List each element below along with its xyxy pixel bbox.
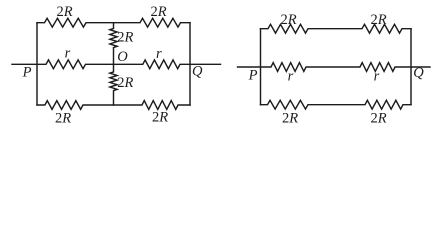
svg-text:Q: Q — [413, 65, 424, 81]
svg-text:r: r — [156, 46, 162, 62]
svg-text:2R: 2R — [117, 75, 133, 91]
svg-text:r: r — [65, 46, 71, 62]
svg-text:P: P — [22, 64, 32, 80]
svg-text:2R: 2R — [152, 110, 168, 126]
svg-text:2R: 2R — [280, 12, 296, 28]
svg-text:2R: 2R — [370, 12, 386, 28]
svg-text:2R: 2R — [55, 110, 71, 126]
svg-text:2R: 2R — [282, 110, 298, 126]
svg-text:r: r — [288, 68, 294, 84]
svg-text:O: O — [117, 49, 128, 65]
svg-text:2R: 2R — [370, 110, 386, 126]
svg-text:2R: 2R — [117, 30, 133, 46]
svg-text:2R: 2R — [56, 4, 72, 20]
svg-text:Q: Q — [192, 64, 203, 80]
svg-text:r: r — [374, 68, 380, 84]
svg-text:2R: 2R — [150, 4, 166, 20]
svg-text:P: P — [248, 67, 258, 83]
